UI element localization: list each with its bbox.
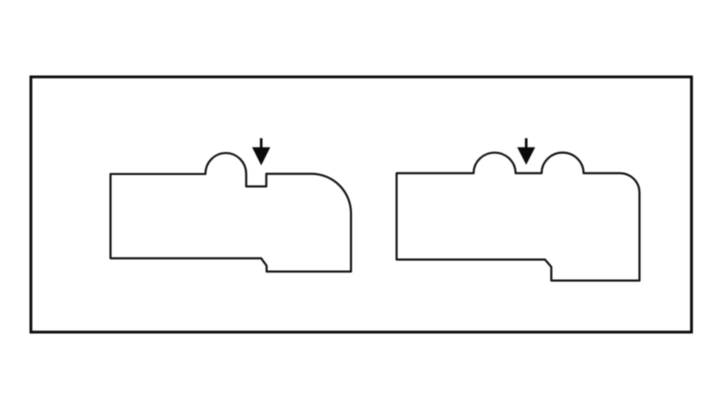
left molding profile outline — [111, 153, 352, 272]
right arrow shaft — [525, 138, 528, 150]
left arrow head — [252, 147, 270, 165]
left arrow shaft — [260, 138, 263, 150]
right molding profile outline — [397, 153, 640, 281]
right arrow head — [517, 147, 535, 165]
